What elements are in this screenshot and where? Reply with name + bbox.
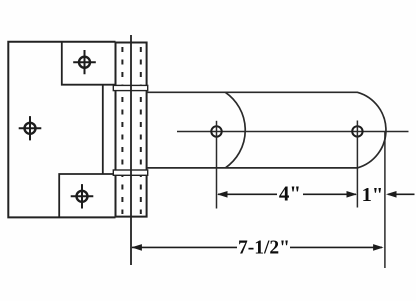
hole crosshair H3 (bottom tab) xyxy=(71,184,94,208)
svg-text:4": 4" xyxy=(279,181,301,205)
hole crosshair H2 (plate centre) xyxy=(19,116,42,140)
dimension 4in line right segment xyxy=(303,193,356,195)
strap centre line xyxy=(177,131,409,133)
knuckle collar lower xyxy=(113,170,147,175)
dimension 7-1/2in left arrowhead xyxy=(131,244,142,251)
barrel hidden line left (dashed) xyxy=(121,47,123,214)
knuckle collar upper xyxy=(113,85,147,90)
H4 vertical line / 4in left extension xyxy=(216,121,218,209)
strap shoulder arc xyxy=(225,92,245,168)
strap hole H5 circle xyxy=(352,126,362,136)
strap hole H4 circle xyxy=(211,126,221,136)
left leaf right edge (mid section) xyxy=(102,85,104,174)
hinge pin centre line / 7-1/2 left extension xyxy=(130,35,132,265)
strap end extension line xyxy=(384,131,386,268)
dimension 7-1/2in line left segment xyxy=(132,246,237,248)
strap outline xyxy=(147,92,386,168)
H5 vertical line / 4in right extension xyxy=(356,121,358,208)
dimension 7-1/2in line right segment xyxy=(290,246,382,248)
svg-text:1": 1" xyxy=(362,184,384,206)
dimension 1in outside arrow line xyxy=(388,193,415,195)
bottom mounting tab xyxy=(59,174,115,217)
barrel strip outline xyxy=(116,43,147,217)
dimension 1in outside arrowhead xyxy=(386,191,397,198)
dimension 4in right arrowhead xyxy=(347,191,358,198)
dimension 7-1/2in right arrowhead xyxy=(373,244,384,251)
svg-text:7-1/2": 7-1/2" xyxy=(238,238,290,259)
top mounting tab xyxy=(62,42,116,85)
dimension 4in line left segment xyxy=(218,193,277,195)
left leaf plate outline xyxy=(8,42,115,218)
hole crosshair H1 (top tab) xyxy=(73,50,96,74)
barrel hidden line right (dashed) xyxy=(140,47,142,214)
dimension 4in left arrowhead xyxy=(217,191,228,198)
